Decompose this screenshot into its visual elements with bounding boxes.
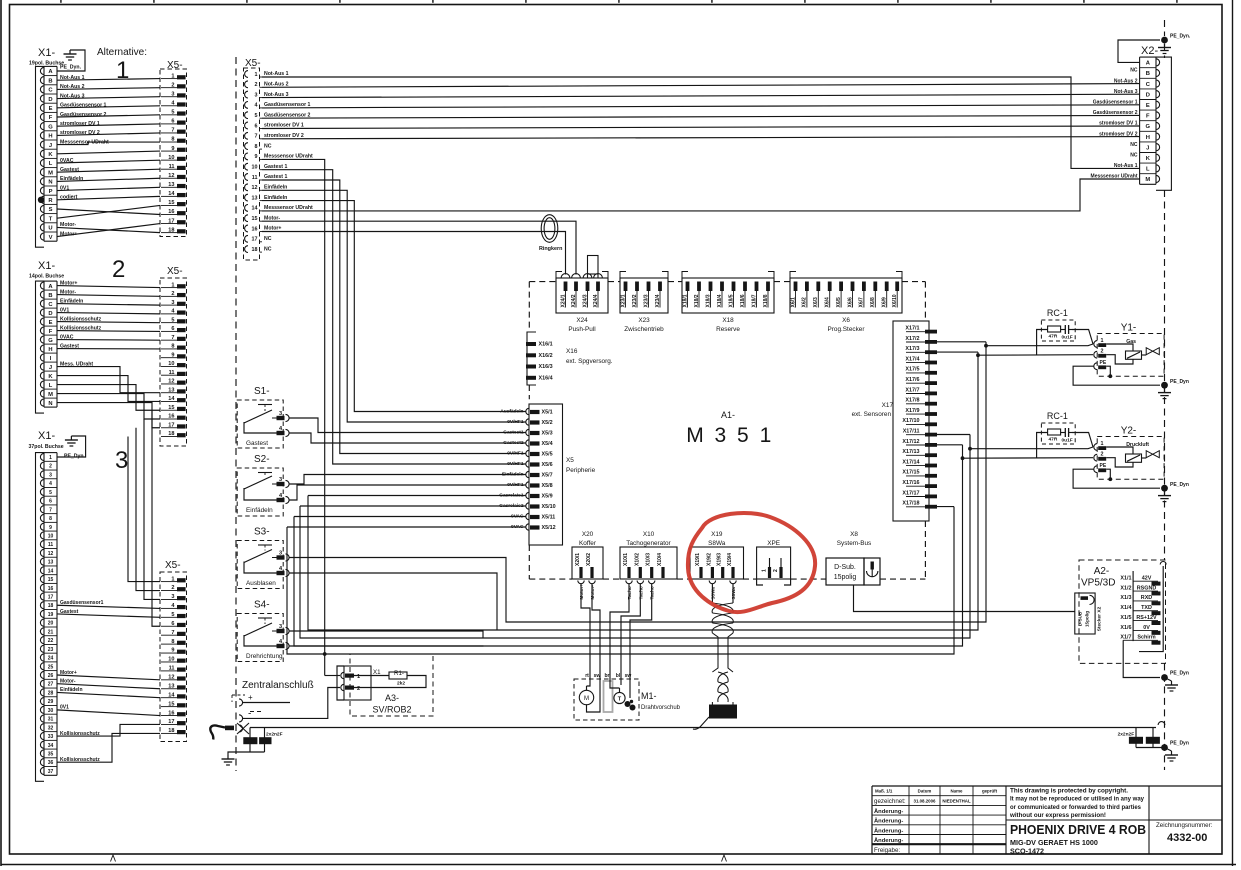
socket at end of main torch wire: [1158, 722, 1165, 725]
pin X1-31 (block3): [44, 713, 57, 715]
svg-text:S: S: [49, 207, 53, 213]
wire X5/1 Not-Aus 1 to X2-L: [262, 77, 1140, 168]
svg-text:SV/ROB2: SV/ROB2: [372, 705, 411, 715]
svg-text:13: 13: [48, 560, 54, 566]
RC-1 left lead (Y2-): [1037, 433, 1048, 458]
pin X1-E: [44, 102, 57, 104]
connector X5- main column dashed bracket: [244, 68, 260, 260]
blade of S1-: [244, 410, 272, 423]
wire X5/13 main to X5/1 Peripherie: [262, 201, 526, 412]
wire X1-B to X5-2 (block2): [57, 295, 160, 297]
wire X5/6 to X2-G: [262, 126, 1140, 129]
pin X5/10 main column: [245, 163, 248, 170]
svg-text:geprüft: geprüft: [982, 789, 998, 794]
svg-text:X18/7: X18/7: [751, 294, 757, 307]
pin X1-6 (block3): [44, 495, 57, 497]
valve symbol of Y1-: [1146, 348, 1153, 355]
svg-text:N: N: [48, 180, 52, 186]
svg-text:X17/16: X17/16: [902, 480, 919, 486]
svg-text:Einfädeln: Einfädeln: [264, 195, 287, 201]
svg-text:Zwischentrieb: Zwischentrieb: [624, 326, 664, 333]
wire X1-28 to X5-14 (block3): [57, 692, 160, 697]
svg-text:X18/1: X18/1: [682, 294, 688, 307]
wire X1-J to X5-13 (block2 staircase): [57, 367, 160, 393]
wire X1-27 to X5-13 (block3): [57, 684, 160, 689]
svg-text:X18: X18: [722, 317, 734, 324]
wire S1 contact3 to X5/3 Peripherie: [289, 418, 526, 433]
wire X5/7 to X2-H: [262, 137, 1140, 139]
page frame outer bottom line: [1, 864, 1236, 866]
svg-text:42V: 42V: [1142, 576, 1152, 582]
connector X24 Push-Pull: [556, 278, 608, 313]
coupling between motor and tacho (gray): [604, 681, 613, 712]
svg-text:X18/2: X18/2: [694, 294, 700, 307]
wire X1-K to X5-9 (block1): [57, 151, 160, 154]
wire X5/10 main to X5/6 Peripherie: [262, 170, 526, 464]
internal PE frame wire (Y1-): [1106, 366, 1110, 376]
wire bundle line b2 S3 contact4 / X5-9 Peripherie to X17/3 / Y1 pin2 net: [308, 355, 978, 630]
svg-text:14: 14: [252, 206, 258, 212]
pin X6/8: [873, 282, 877, 292]
internal wire pin1 to coil (Y1-): [1106, 344, 1133, 351]
svg-text:9: 9: [49, 525, 52, 531]
connector XPE: [757, 547, 791, 579]
pin X1-15 (block3): [44, 574, 57, 576]
svg-text:11: 11: [252, 175, 258, 181]
svg-text:X5/3: X5/3: [542, 431, 553, 437]
pin X10/4: [661, 567, 664, 578]
wire X17/3 to Y1 pin2: [937, 351, 978, 353]
svg-text:Push-Pull: Push-Pull: [568, 326, 595, 333]
svg-text:X6/2: X6/2: [802, 297, 808, 308]
wire X10/2 to tacho (bl): [621, 584, 640, 685]
pin X6/4: [828, 282, 832, 292]
pin X16/1: [526, 342, 536, 346]
svg-text:PE_Dyn: PE_Dyn: [1170, 482, 1189, 488]
wire X17/11 to Y2 pin1: [937, 434, 970, 436]
svg-text:X24/4: X24/4: [593, 294, 599, 307]
svg-text:4: 4: [255, 103, 258, 109]
svg-text:Freigabe:: Freigabe:: [874, 847, 900, 854]
svg-text:26: 26: [48, 673, 54, 679]
pin X5/7 main column: [245, 132, 248, 139]
pin X1-B: [44, 75, 57, 77]
wire X5/16 Motor+ to X24/1: [262, 232, 566, 275]
solenoid coil of Y1-: [1126, 351, 1142, 359]
svg-text:X17/18: X17/18: [902, 501, 919, 507]
pin X23/2: [635, 282, 639, 292]
svg-text:25: 25: [48, 664, 54, 670]
svg-text:7: 7: [49, 507, 52, 513]
straight section of twisted pair: [712, 633, 718, 672]
svg-text:2x2n2F: 2x2n2F: [1118, 732, 1135, 738]
svg-text:21: 21: [48, 629, 54, 635]
svg-text:X17/11: X17/11: [903, 429, 920, 435]
svg-text:2x2n2F: 2x2n2F: [266, 731, 283, 737]
wire X1-M to X5-11 (block1): [57, 169, 160, 172]
blade of S3-: [244, 550, 272, 563]
pin X1-18 (block3): [44, 600, 57, 602]
pin X1-33 (block3): [44, 731, 57, 733]
svg-text:bl: bl: [616, 673, 621, 679]
pin X24/3: [586, 282, 590, 292]
svg-text:X24/3: X24/3: [582, 294, 588, 307]
svg-text:Peripherie: Peripherie: [566, 467, 596, 474]
ground PE_Dyn for Y1-: [1164, 389, 1166, 393]
svg-text:D-Sub.: D-Sub.: [834, 564, 856, 571]
svg-text:Y2-: Y2-: [1121, 426, 1137, 437]
svg-text:Ringkern: Ringkern: [539, 246, 562, 252]
mating sockets above X24: [561, 274, 570, 278]
blind plug on X24/3 X24/4: [588, 256, 599, 275]
svg-text:Motor+: Motor+: [264, 226, 281, 232]
svg-text:Y1-: Y1-: [1121, 323, 1137, 334]
svg-text:X18/8: X18/8: [763, 294, 769, 307]
welding torch symbol: [225, 726, 234, 731]
svg-text:G: G: [1146, 124, 1151, 130]
svg-text:PE_Dyn: PE_Dyn: [1170, 671, 1189, 677]
wire X5/2 to X2-C: [262, 84, 1140, 88]
bracket corner marks of X18: [682, 272, 688, 279]
pin PE of Y1-: [1094, 363, 1097, 370]
svg-text:Tachogenerator: Tachogenerator: [626, 540, 671, 547]
svg-text:X19/1: X19/1: [695, 553, 701, 566]
pin X18/4: [720, 282, 724, 292]
svg-text:X10/1: X10/1: [623, 553, 629, 566]
svg-text:2: 2: [357, 686, 360, 692]
svg-text:B: B: [1146, 71, 1150, 77]
svg-text:X20/1: X20/1: [575, 553, 581, 566]
svg-text:X2-: X2-: [1141, 45, 1158, 57]
pin X1-P: [44, 185, 57, 187]
pin X1-24 (block3): [44, 652, 57, 654]
svg-text:X10/3: X10/3: [646, 553, 652, 566]
external PE wire of Y2- to PE_Dyn: [1073, 469, 1160, 488]
pin X1-5 (block3): [44, 486, 57, 488]
svg-text:35: 35: [48, 751, 54, 757]
svg-text:X16/1: X16/1: [539, 342, 553, 348]
wire X1-B to X5-1 (block1): [57, 79, 160, 81]
svg-text:NC: NC: [264, 246, 272, 252]
wire X1-L to X5-15 (block2 staircase): [57, 385, 160, 411]
svg-text:br: br: [605, 673, 610, 679]
pin X18/8: [766, 282, 770, 292]
pin X1-9 (block3): [44, 521, 57, 523]
wire X1-J to X5-8 (block1, with jog): [57, 142, 160, 145]
svg-text:X6/1: X6/1: [790, 297, 796, 308]
machine boundary dashed line left: [235, 57, 237, 771]
svg-text:Name: Name: [951, 789, 964, 794]
module A2- VP5/3D dashed box: [1079, 560, 1166, 663]
connector icon in X8 box: [871, 562, 874, 570]
pin X1-H: [44, 130, 57, 132]
svg-text:12: 12: [252, 185, 258, 191]
svg-text:Messsensor UDraht: Messsensor UDraht: [264, 205, 313, 211]
svg-text:H: H: [48, 347, 52, 353]
pin X2-F: [1140, 109, 1156, 111]
svg-text:2: 2: [49, 464, 52, 470]
svg-text:X18/5: X18/5: [728, 294, 734, 307]
svg-text:X1/6: X1/6: [1120, 625, 1131, 631]
svg-text:H: H: [1146, 135, 1150, 141]
pin X1-U: [44, 222, 57, 224]
svg-text:Änderung-: Änderung-: [874, 818, 903, 825]
wire X2-A to PE_Dyn node: [1118, 40, 1160, 62]
wire X1-N to X5-12 (block1): [57, 178, 160, 181]
pin X1/1 of A3: [341, 672, 344, 678]
svg-text:X23: X23: [638, 317, 650, 324]
pin X1-35 (block3): [44, 748, 57, 750]
twisted pair wires from X19/2 and X19/4: [711, 584, 713, 603]
svg-text:X23/1: X23/1: [620, 294, 626, 307]
svg-text:X16: X16: [566, 348, 578, 355]
coded pin marker (codiert) on pin R: [38, 197, 44, 203]
svg-text:0V: 0V: [1143, 625, 1150, 631]
svg-text:37pol. Buchse: 37pol. Buchse: [29, 444, 64, 450]
svg-text:X5/12: X5/12: [542, 525, 556, 531]
pin X5/1 Peripherie: [526, 408, 529, 414]
svg-text:Zeichnungsnummer:: Zeichnungsnummer:: [1156, 822, 1213, 829]
svg-text:5: 5: [255, 113, 258, 119]
pin X18/5: [732, 282, 736, 292]
svg-text:X5/5: X5/5: [542, 452, 553, 458]
svg-text:X17/10: X17/10: [902, 418, 919, 424]
svg-text:15: 15: [252, 216, 258, 222]
svg-text:L: L: [49, 383, 53, 389]
svg-text:2: 2: [255, 82, 258, 88]
pin X5/12 main column: [245, 184, 248, 191]
pin X19/2: [711, 567, 714, 578]
wire X5/9 main down-fan to A3: [262, 159, 325, 675]
wire X1-30 to X5-16 (block3): [57, 710, 160, 716]
ground PE_Dyn for Y2-: [1164, 492, 1166, 496]
pin X1-37 (block3): [44, 766, 57, 768]
svg-text:X16/4: X16/4: [539, 375, 553, 381]
pin X1-25 (block3): [44, 661, 57, 663]
svg-text:X24/1: X24/1: [560, 294, 566, 307]
svg-text:X17/5: X17/5: [905, 367, 919, 373]
pin X1-F: [44, 111, 57, 113]
svg-text:14: 14: [48, 568, 54, 574]
svg-text:X1-: X1-: [38, 260, 55, 272]
svg-text:17: 17: [48, 595, 54, 601]
pin X1-20 (block3): [44, 617, 57, 619]
pin X5/17 main column: [245, 235, 248, 242]
pin X1-32 (block3): [44, 722, 57, 724]
wire X8 D-Sub to A2 VP5/3D connector: [854, 585, 1075, 612]
svg-text:37: 37: [48, 769, 54, 775]
pin X2-G: [1140, 120, 1156, 122]
wire X1-M to X5-16 (block2 staircase): [57, 394, 160, 419]
pin X1-16 (block3): [44, 582, 57, 584]
internal wire pin2 to coil (Y1-): [1106, 355, 1133, 364]
svg-text:Änderung-: Änderung-: [874, 827, 903, 834]
wire X1-36 to X5-18 (block3): [57, 733, 160, 762]
svg-text:2: 2: [773, 569, 779, 572]
svg-text:NC: NC: [1130, 142, 1138, 148]
pin X1-19 (block3): [44, 609, 57, 611]
svg-text:0V1: 0V1: [60, 185, 69, 191]
svg-text:M: M: [48, 392, 53, 398]
svg-text:M1-: M1-: [641, 691, 657, 701]
pin X1-A (block2): [40, 282, 44, 289]
svg-text:18: 18: [252, 247, 258, 253]
pin X1-S: [44, 203, 57, 205]
connector X5 Peripherie: [529, 404, 563, 545]
external PE wire of Y1- to PE_Dyn: [1073, 366, 1160, 385]
svg-text:8: 8: [255, 144, 258, 150]
svg-text:E: E: [49, 106, 53, 112]
svg-text:D: D: [48, 97, 52, 103]
svg-text:Gastest: Gastest: [60, 167, 79, 173]
svg-text:T: T: [618, 696, 622, 702]
svg-text:X24/2: X24/2: [571, 294, 577, 307]
svg-text:S2-: S2-: [254, 454, 270, 465]
svg-text:18: 18: [48, 603, 54, 609]
svg-text:M: M: [48, 170, 53, 176]
svg-text:33: 33: [48, 734, 54, 740]
wire bundle line b1 S3 contact3 to X17/2 / Y1 pin1 net: [289, 346, 986, 622]
svg-text:1: 1: [116, 57, 129, 84]
crossover wires X1-U/V to X5-17/18 (block1): [57, 227, 160, 232]
svg-text:RC-1: RC-1: [1047, 308, 1068, 318]
svg-text:X1/7: X1/7: [1120, 635, 1131, 641]
svg-text:H: H: [48, 134, 52, 140]
pin X1-K (block2): [44, 370, 57, 372]
red hand-drawn marker circle around X19: [688, 513, 815, 612]
wire X17/18 stub to bundle: [937, 506, 954, 508]
svg-text:15polig: 15polig: [1085, 611, 1090, 627]
svg-text:X17/15: X17/15: [902, 470, 919, 476]
svg-text:16: 16: [48, 586, 54, 592]
svg-text:T: T: [49, 216, 53, 222]
svg-text:Reserve: Reserve: [716, 326, 740, 333]
svg-text:B: B: [48, 293, 52, 299]
wire X5/15 Motor- to X24/2: [262, 221, 576, 274]
pin X1-22 (block3): [44, 635, 57, 637]
wire X1-H to X5-7 (block1): [57, 133, 160, 135]
pin X6/7: [862, 282, 866, 292]
junction dots on Y-feed verticals: [984, 344, 988, 348]
svg-text:5: 5: [49, 490, 52, 496]
pin X6/9: [885, 282, 889, 292]
svg-text:24: 24: [48, 656, 54, 662]
svg-text:X17/4: X17/4: [905, 356, 919, 362]
actuator of S2-: [258, 472, 272, 474]
svg-text:X17/13: X17/13: [902, 449, 919, 455]
pin X23/4: [658, 282, 662, 292]
wire X1-E to X5-5 (block2): [57, 322, 160, 323]
solenoid coil of Y2-: [1126, 454, 1142, 462]
svg-text:4: 4: [49, 481, 52, 487]
svg-text:X6/8: X6/8: [870, 297, 876, 308]
svg-text:Gasdüsensensor 2: Gasdüsensensor 2: [60, 112, 107, 118]
svg-text:X5/6: X5/6: [542, 462, 553, 468]
svg-text:X1-: X1-: [38, 430, 55, 442]
pin X1-11 (block3): [44, 539, 57, 541]
pin X23/3: [647, 282, 651, 292]
connector D-SUB 15polig Stecker X2 of A2: [1075, 593, 1095, 634]
pin X1-E (block2): [44, 316, 57, 318]
svg-text:X18/4: X18/4: [717, 294, 723, 307]
svg-text:Einfädeln: Einfädeln: [264, 185, 287, 191]
svg-text:S1-: S1-: [254, 386, 270, 397]
pin X1-V: [44, 231, 57, 233]
svg-text:X17/2: X17/2: [905, 336, 919, 342]
wire X5/5 to X2-F: [262, 115, 1140, 118]
svg-text:VP5/3D: VP5/3D: [1081, 578, 1115, 589]
svg-text:X1/3: X1/3: [1120, 595, 1131, 601]
toroid Ringkern: [541, 215, 558, 243]
svg-text:PE_Dyn.: PE_Dyn.: [1170, 34, 1191, 40]
node PE_Dyn for Y2-: [1161, 485, 1168, 492]
wire X5/10 Peripherie left to bundle: [300, 505, 526, 507]
wire bundle line b3 S4 contact3 / X5-10 Peripherie to X17/11 / Y2 pin1 net: [300, 449, 970, 638]
svg-text:System-Bus: System-Bus: [837, 540, 871, 547]
svg-text:M 3 5 1: M 3 5 1: [686, 424, 774, 447]
svg-text:X1/4: X1/4: [1120, 605, 1131, 611]
svg-text:X10/2: X10/2: [634, 553, 640, 566]
ground at Zentralanschluss: [228, 752, 265, 755]
pin X1-H (block2): [44, 343, 57, 345]
svg-text:20: 20: [48, 621, 54, 627]
pin X2-E: [1140, 99, 1156, 101]
pin X1-23 (block3): [44, 643, 57, 645]
wire X5/4 to X2-E: [262, 105, 1140, 108]
svg-text:stromloser DV 2: stromloser DV 2: [264, 133, 304, 139]
svg-text:0u1F: 0u1F: [1062, 335, 1073, 341]
wires of R1 loop: [354, 675, 389, 677]
svg-text:NC: NC: [264, 143, 272, 149]
svg-text:X17/3: X17/3: [905, 346, 919, 352]
pin X18/2: [697, 282, 701, 292]
svg-text:E: E: [1146, 103, 1150, 109]
pin X1-26 (block3): [44, 670, 57, 672]
svg-text:10: 10: [252, 165, 258, 171]
pin X1-F (block2): [44, 325, 57, 327]
pin X1-A: [40, 67, 44, 74]
svg-text:RXD: RXD: [1141, 595, 1152, 601]
pin X5/16 main column: [245, 225, 248, 232]
svg-text:PE_Dyn: PE_Dyn: [1170, 741, 1189, 747]
svg-text:PE_Dyn: PE_Dyn: [1170, 379, 1189, 385]
svg-text:X6/10: X6/10: [892, 294, 898, 307]
crossover wires X1-S/T to X5-15/16 (block1): [57, 209, 160, 215]
svg-text:X5/11: X5/11: [542, 515, 556, 521]
svg-text:X17/6: X17/6: [905, 377, 919, 383]
feeder wires from block2 column down to X5 block3 rows 1-3 and 6: [128, 437, 160, 582]
pin X2-A: [1156, 59, 1160, 66]
svg-text:S8Wa: S8Wa: [708, 540, 726, 547]
pin X2-H: [1140, 130, 1156, 132]
svg-text:16: 16: [252, 226, 258, 232]
svg-text:0VAC: 0VAC: [60, 158, 74, 164]
pin X1-4 (block3): [44, 478, 57, 480]
pin X5/3 main column: [245, 91, 248, 98]
A2 pin rows X1/1..X1/7: [1132, 571, 1134, 641]
pin X10/3: [650, 567, 653, 578]
terminal codiert (crossed) of Zentralanschluss: [239, 725, 243, 732]
terminal + of Zentralanschluss: [239, 699, 243, 706]
pin 1 of Y2-: [1094, 444, 1097, 451]
pin X5/5 Peripherie: [526, 450, 529, 456]
node PE_Dyn for Y1-: [1161, 382, 1168, 389]
svg-text:32: 32: [48, 725, 54, 731]
pin X1-L (block2): [44, 379, 57, 381]
bottom border fold marks: [111, 855, 116, 862]
page frame outer right line: [1232, 0, 1234, 866]
pin X5/10 Peripherie: [526, 503, 529, 509]
